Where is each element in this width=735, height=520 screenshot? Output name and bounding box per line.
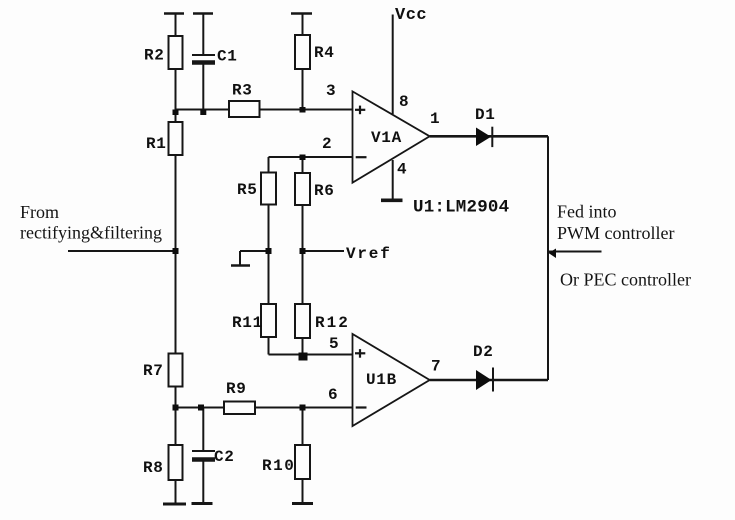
svg-text:PWM controller: PWM controller — [557, 223, 674, 243]
svg-text:1: 1 — [430, 110, 440, 128]
svg-text:R8: R8 — [143, 459, 164, 477]
svg-text:R2: R2 — [144, 47, 165, 65]
svg-text:D2: D2 — [473, 343, 494, 361]
svg-text:C2: C2 — [214, 448, 235, 466]
svg-text:6: 6 — [328, 386, 338, 404]
svg-text:7: 7 — [431, 358, 441, 376]
svg-text:R6: R6 — [314, 182, 335, 200]
svg-text:C1: C1 — [217, 48, 238, 66]
svg-text:R11: R11 — [232, 314, 263, 332]
svg-text:R4: R4 — [314, 44, 335, 62]
svg-text:8: 8 — [399, 93, 409, 111]
svg-text:Fed into: Fed into — [557, 202, 617, 222]
svg-text:3: 3 — [326, 82, 336, 100]
svg-text:U1:LM2904: U1:LM2904 — [413, 198, 509, 218]
svg-text:R5: R5 — [237, 181, 258, 199]
svg-text:D1: D1 — [475, 106, 496, 124]
svg-text:R12: R12 — [315, 314, 350, 332]
svg-text:U1B: U1B — [366, 371, 397, 389]
svg-text:From: From — [20, 202, 59, 222]
svg-text:R3: R3 — [232, 82, 253, 100]
svg-text:R9: R9 — [226, 380, 247, 398]
svg-text:V1A: V1A — [371, 129, 402, 147]
svg-text:2: 2 — [322, 135, 332, 153]
svg-text:Or PEC controller: Or PEC controller — [560, 270, 691, 290]
svg-text:5: 5 — [329, 335, 339, 353]
svg-text:R10: R10 — [262, 457, 295, 475]
svg-text:R7: R7 — [143, 362, 164, 380]
svg-text:Vcc: Vcc — [395, 6, 427, 25]
svg-text:4: 4 — [397, 161, 407, 179]
svg-text:Vref: Vref — [346, 245, 392, 263]
svg-text:rectifying&filtering: rectifying&filtering — [20, 223, 162, 243]
svg-text:R1: R1 — [146, 135, 167, 153]
